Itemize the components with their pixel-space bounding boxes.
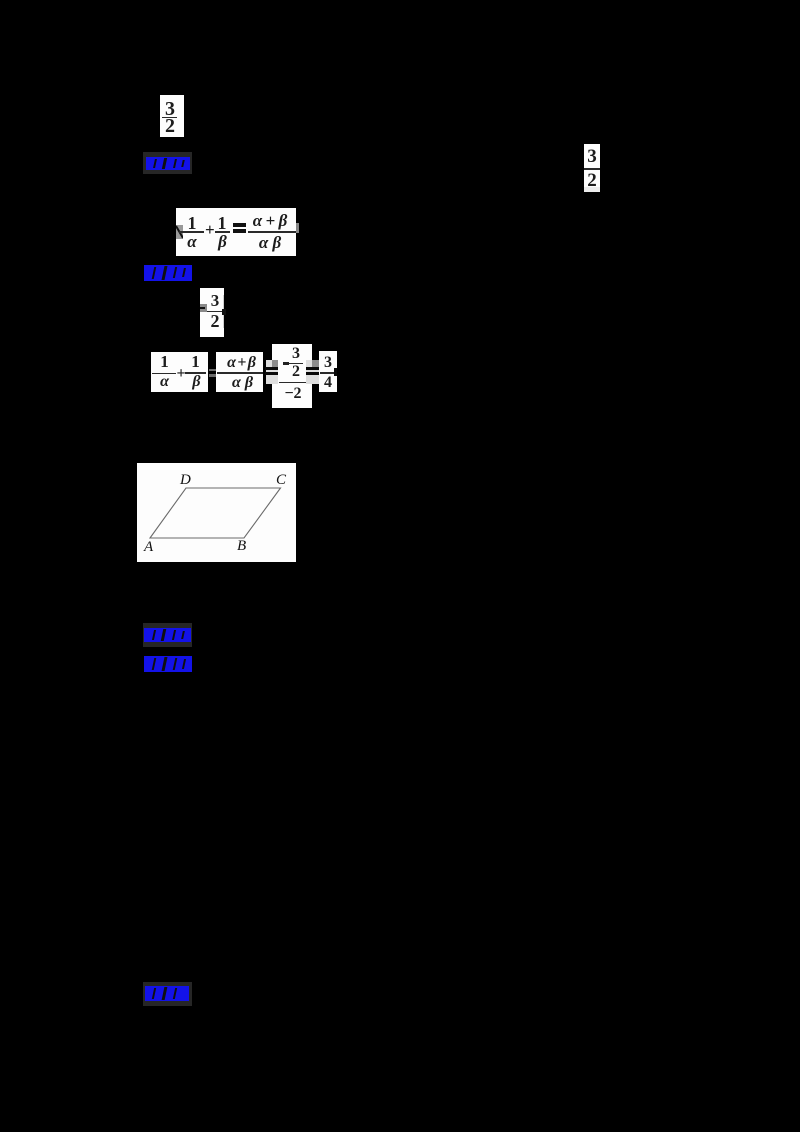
box C: (-3/2)/(-2) bbox=[272, 344, 312, 408]
equals patch 2 bbox=[306, 360, 319, 384]
tick right of equation bbox=[296, 223, 300, 233]
svg-text:D: D bbox=[179, 472, 191, 488]
svg-text:B: B bbox=[237, 538, 246, 554]
box D: 3/4 bbox=[319, 351, 337, 392]
box B: (a+b)/(ab) bbox=[216, 352, 264, 392]
parallelogram diagram bbox=[137, 463, 296, 562]
svg-text:C: C bbox=[276, 472, 287, 488]
equation image: fraction 3/2 (top left) bbox=[160, 95, 184, 137]
box A: 1/a + 1/b bbox=[151, 352, 208, 392]
equation image: -3/2 bbox=[200, 288, 224, 337]
faint equals between bbox=[209, 369, 218, 372]
stray backslash artifact bbox=[176, 225, 183, 239]
equation image: fraction 3/2 (top right) bbox=[584, 144, 600, 192]
hyperlink 5 bbox=[143, 982, 192, 1006]
hyperlink 3 bbox=[143, 623, 192, 647]
hyperlink 4 bbox=[144, 656, 192, 672]
hyperlink 1 bbox=[143, 152, 192, 174]
bold equals bbox=[233, 223, 246, 227]
equals patch 1 bbox=[266, 360, 278, 384]
hyperlink 2 bbox=[144, 265, 192, 281]
equation image: 1/a + 1/b = (a+b)/(ab) bbox=[176, 208, 296, 256]
svg-text:A: A bbox=[143, 539, 154, 555]
